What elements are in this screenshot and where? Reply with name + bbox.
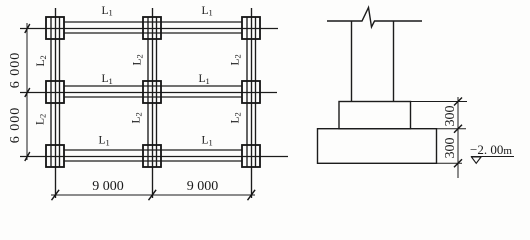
grid axis line row A (horizontal, through columns) [20, 28, 278, 30]
beam L2 column 1 right edge [59, 17, 61, 167]
tick left dim at row B [25, 88, 30, 97]
grid axis line column 3 [251, 8, 253, 198]
dimension line right vertical (section) [457, 97, 459, 178]
beam L1 row C bottom edge [64, 160, 242, 162]
svg-text:6 000: 6 000 [8, 107, 23, 144]
elevation marker triangle [472, 157, 482, 163]
tick section dim at footing top [454, 125, 462, 133]
elevation marker bar line [471, 156, 514, 158]
column square C2 [143, 145, 161, 167]
svg-text:L2: L2 [132, 54, 145, 65]
column square A3 [242, 17, 260, 39]
floor line with break symbol [327, 8, 422, 28]
beam L1 row C top edge [64, 149, 242, 151]
dimension line bottom horizontal [51, 194, 255, 196]
svg-text:9 000: 9 000 [92, 179, 124, 194]
column square C1 [46, 145, 64, 167]
beam L1 row A bottom edge [64, 32, 242, 34]
beam L1 row A top edge [64, 21, 242, 23]
column square A2 [143, 17, 161, 39]
tick bottom dim at column 1 [52, 190, 60, 200]
section column left edge [351, 21, 353, 102]
beam L1 row B bottom edge [64, 96, 242, 98]
tick left dim at row A [25, 24, 30, 33]
grid axis line column 1 (vertical) [55, 8, 57, 198]
beam L2 column 3 left edge [246, 17, 248, 167]
svg-text:6 000: 6 000 [8, 52, 23, 89]
section column right edge [393, 21, 395, 102]
beam L1 row B top edge [64, 85, 242, 87]
beam L2 column 2 left edge [147, 17, 149, 167]
extension line at footing bottom [437, 162, 463, 164]
grid axis line row C [20, 156, 288, 158]
tick section dim at footing bottom [454, 159, 462, 167]
svg-text:9 000: 9 000 [187, 179, 219, 194]
extension line at pedestal top [411, 101, 468, 103]
column square C3 [242, 145, 260, 167]
column square B1 [46, 81, 64, 103]
column square B2 [143, 81, 161, 103]
grid axis line row B [20, 92, 277, 94]
beam L2 column 3 right edge [255, 17, 257, 167]
dimension line left vertical [26, 23, 28, 160]
extension line at footing top [437, 128, 467, 130]
foundation pedestal step [339, 102, 411, 129]
svg-text:300: 300 [443, 106, 458, 127]
beam L2 column 1 left edge [50, 17, 52, 167]
svg-text:L1: L1 [202, 135, 213, 148]
svg-text:L2: L2 [230, 112, 243, 123]
svg-text:L1: L1 [202, 5, 213, 18]
svg-text:L2: L2 [35, 114, 48, 125]
column square A1 [46, 17, 64, 39]
grid axis line column 2 [152, 8, 154, 198]
svg-text:L1: L1 [102, 73, 113, 86]
column square B3 [242, 81, 260, 103]
svg-text:L1: L1 [199, 73, 210, 86]
tick left dim at row C [25, 152, 30, 161]
svg-text:−2. 00m: −2. 00m [470, 142, 512, 157]
svg-text:L2: L2 [230, 54, 243, 65]
svg-text:L2: L2 [35, 55, 48, 66]
svg-text:300: 300 [443, 138, 458, 159]
beam L2 column 2 right edge [156, 17, 158, 167]
svg-text:L1: L1 [99, 135, 110, 148]
svg-text:L1: L1 [102, 5, 113, 18]
foundation footing base [318, 129, 437, 164]
tick bottom dim at column 3 [248, 190, 256, 200]
svg-text:L2: L2 [131, 112, 144, 123]
tick bottom dim at column 2 [149, 190, 157, 200]
tick section dim at pedestal top [454, 98, 462, 106]
